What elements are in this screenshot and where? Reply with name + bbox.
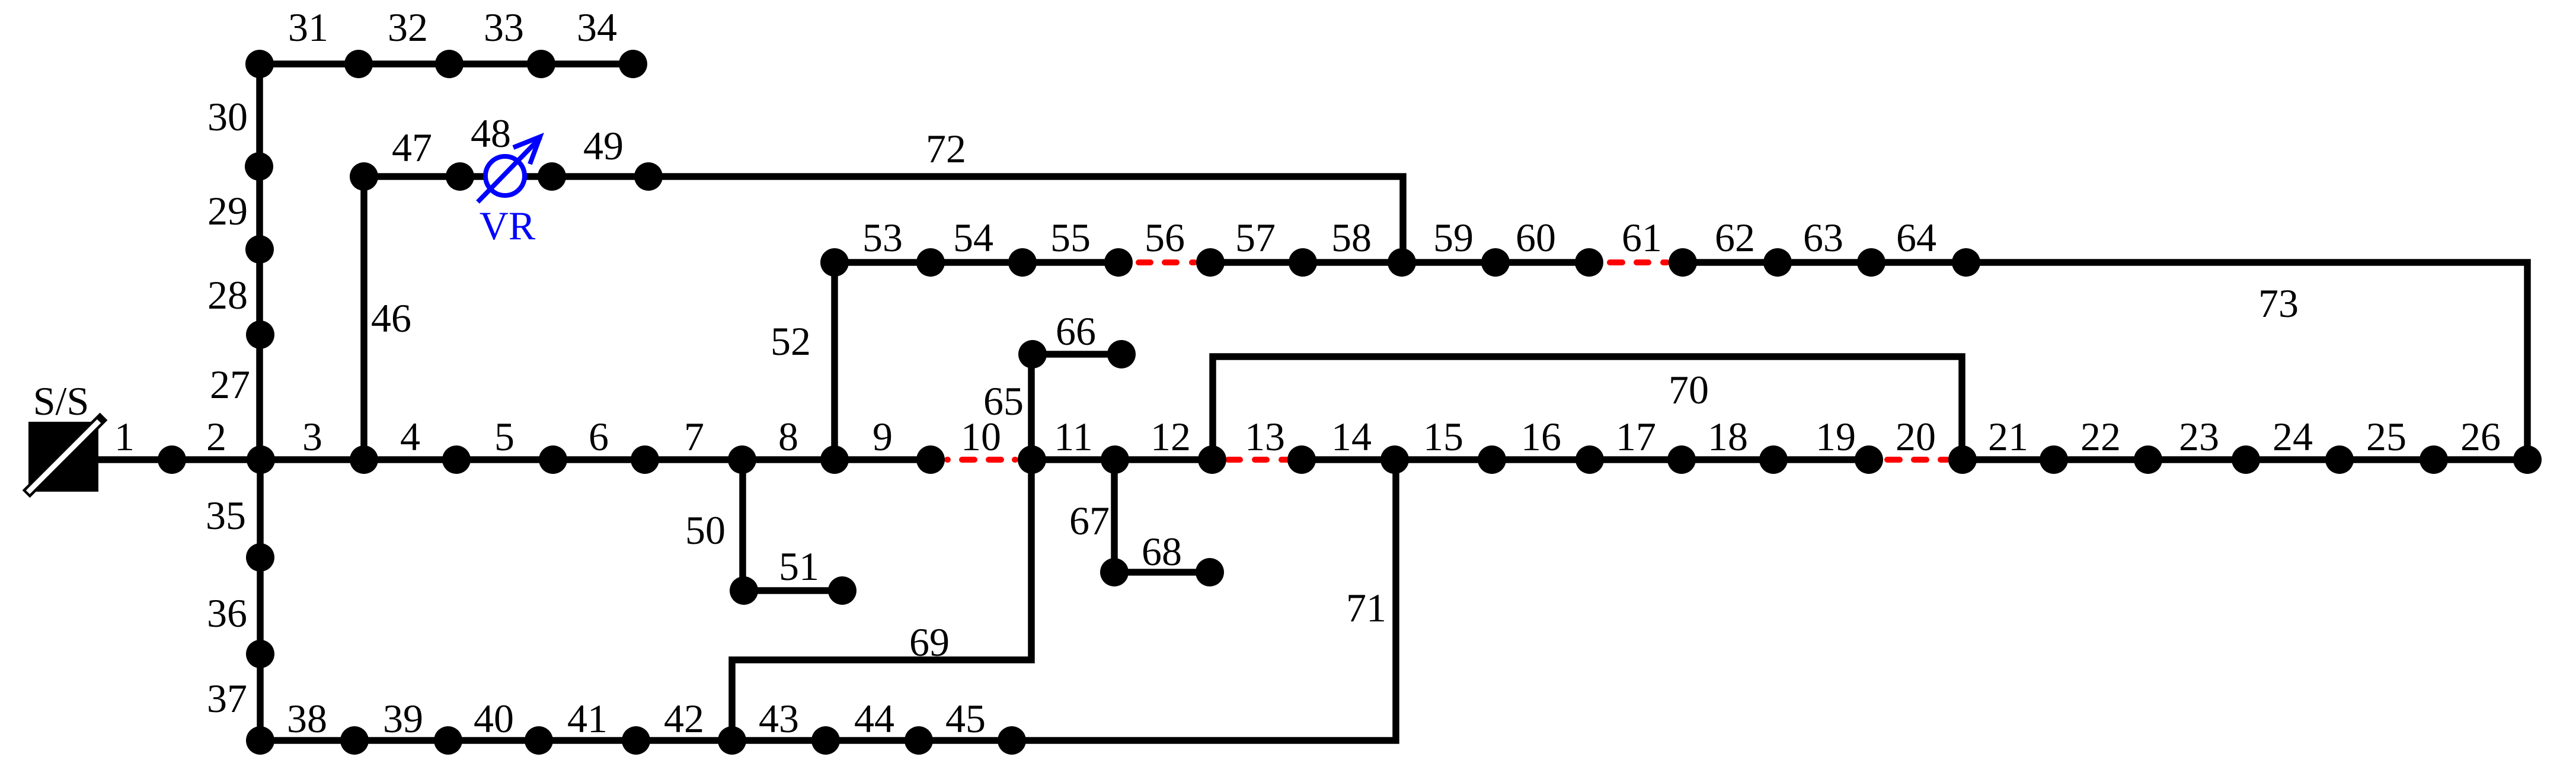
svg-text:58: 58 — [1331, 215, 1372, 260]
node bus 67/68 left — [1100, 558, 1129, 586]
node main bus 1 — [158, 445, 186, 474]
svg-text:56: 56 — [1145, 215, 1185, 260]
svg-text:65: 65 — [983, 379, 1024, 424]
node branch 53-64 bus 8 — [1481, 248, 1510, 277]
svg-text:8: 8 — [778, 414, 798, 459]
node corner 37/38 — [246, 726, 274, 755]
node main bus 3 — [350, 445, 378, 474]
node main bus 4 — [442, 445, 471, 474]
node bus 68 end — [1196, 558, 1224, 586]
wire main feeder segments 11-12 — [1025, 456, 1219, 463]
tie switch 10 (red dashed) — [947, 457, 1015, 463]
svg-text:40: 40 — [474, 696, 514, 741]
svg-text:63: 63 — [1803, 215, 1843, 260]
wire branch 50 vertical and 51 horizontal — [743, 460, 842, 591]
node main bus 26 — [2513, 445, 2542, 474]
node bottom branch bus 4 — [622, 726, 650, 755]
node on branch 35/36 — [246, 543, 274, 572]
svg-text:18: 18 — [1708, 414, 1748, 459]
node bottom branch bus 2 — [434, 726, 462, 755]
svg-text:39: 39 — [383, 696, 423, 741]
node main bus 5 — [539, 445, 567, 474]
node main bus 21 — [2040, 445, 2068, 474]
svg-text:44: 44 — [854, 696, 894, 741]
svg-text:35: 35 — [206, 493, 246, 538]
wire branch 65 vertical, 69 horizontal and drop to bottom branch — [732, 354, 1031, 740]
node main bus 16 — [1575, 445, 1604, 474]
svg-text:16: 16 — [1521, 414, 1561, 459]
svg-text:73: 73 — [2258, 281, 2299, 326]
svg-text:67: 67 — [1069, 498, 1110, 543]
node branch 53-64 bus 13 — [1952, 248, 1980, 277]
svg-text:43: 43 — [759, 696, 799, 741]
svg-text:24: 24 — [2273, 414, 2313, 459]
svg-text:54: 54 — [953, 215, 993, 260]
node main bus 8 — [820, 445, 849, 474]
svg-text:37: 37 — [207, 676, 247, 721]
wire branch 53-56 — [835, 259, 1126, 266]
svg-text:27: 27 — [210, 362, 250, 407]
svg-text:45: 45 — [945, 696, 986, 741]
node corner 30/31 — [245, 50, 274, 78]
svg-text:52: 52 — [771, 319, 811, 364]
svg-text:3: 3 — [302, 414, 322, 459]
svg-text:23: 23 — [2179, 414, 2219, 459]
node branch 53-64 bus 9 — [1575, 248, 1603, 277]
svg-text:20: 20 — [1896, 414, 1936, 459]
tie switch 13 (red dashed) — [1228, 457, 1287, 463]
node main bus 14 — [1380, 445, 1409, 474]
svg-text:5: 5 — [494, 414, 514, 459]
node branch 47-49 bus 3 — [538, 162, 566, 191]
node branch 31-34 bus 4 — [619, 50, 647, 78]
node bottom branch bus 5 — [718, 726, 746, 755]
node branch 53-64 bus 6 — [1289, 248, 1317, 277]
wire branches 27-30 vertical and 31-34 horizontal — [260, 64, 633, 460]
tie switch 56 (red dashed) — [1139, 259, 1194, 265]
node branch 53-64 bus 12 — [1857, 248, 1885, 277]
node main bus 15 — [1478, 445, 1506, 474]
node branch 53-64 bus 4 — [1104, 248, 1133, 277]
node main bus 6 — [631, 445, 659, 474]
svg-text:19: 19 — [1816, 414, 1856, 459]
svg-text:26: 26 — [2460, 414, 2501, 459]
svg-text:42: 42 — [664, 696, 704, 741]
wire main feeder segments 21-26 — [1955, 456, 2527, 463]
svg-text:53: 53 — [862, 215, 903, 260]
node branch 53-64 bus 1 — [820, 248, 849, 277]
node branch 47-49 bus 4 — [634, 162, 663, 191]
node bottom branch bus 3 — [525, 726, 553, 755]
svg-text:13: 13 — [1245, 414, 1285, 459]
svg-text:VR: VR — [480, 203, 536, 248]
node branch 53-64 bus 2 — [916, 248, 945, 277]
svg-text:61: 61 — [1622, 215, 1662, 260]
svg-text:12: 12 — [1150, 414, 1191, 459]
svg-text:38: 38 — [287, 696, 327, 741]
svg-text:2: 2 — [206, 414, 226, 459]
tie switch 61 (red dashed) — [1610, 259, 1667, 265]
node main bus 12 — [1198, 445, 1226, 474]
svg-text:51: 51 — [779, 544, 819, 589]
svg-text:46: 46 — [371, 296, 411, 341]
wire branch 35-37 vertical, 38-45 bottom horizontal, 71 vertical to bus 14 — [260, 460, 1396, 740]
node main bus 20 — [1948, 445, 1977, 474]
node bottom branch bus 7 — [905, 726, 933, 755]
svg-text:9: 9 — [872, 414, 893, 459]
node main bus 22 — [2134, 445, 2162, 474]
svg-text:62: 62 — [1715, 215, 1755, 260]
node branch 31-34 bus 3 — [527, 50, 555, 78]
node bus 50/51 left — [730, 576, 758, 605]
svg-text:71: 71 — [1346, 585, 1386, 630]
node branch 53-64 bus 5 — [1196, 248, 1225, 277]
svg-text:6: 6 — [589, 414, 609, 459]
svg-text:30: 30 — [207, 94, 248, 139]
node bottom branch bus 1 — [340, 726, 369, 755]
voltage regulator VR on branch 48 — [478, 137, 541, 202]
wire main feeder segments 14-19 — [1295, 456, 1876, 463]
node branch 53-64 bus 11 — [1763, 248, 1792, 277]
node bottom branch bus 6 — [811, 726, 840, 755]
svg-text:36: 36 — [207, 591, 247, 636]
wire branch 68 horizontal — [1114, 569, 1210, 576]
svg-text:11: 11 — [1054, 414, 1092, 459]
svg-text:4: 4 — [400, 414, 420, 459]
substation S/S — [26, 416, 104, 494]
node main bus 13 — [1287, 445, 1316, 474]
svg-text:41: 41 — [567, 696, 608, 741]
svg-text:15: 15 — [1423, 414, 1463, 459]
wire main feeder segment S/S to bus 9-10 — [98, 456, 938, 463]
svg-text:7: 7 — [684, 414, 704, 459]
node branch 47-49 bus 1 — [350, 162, 378, 191]
wire branch 47-49 horizontal, 72 and its drop to bus 58/59 — [364, 177, 1403, 262]
svg-text:33: 33 — [484, 5, 524, 50]
svg-text:55: 55 — [1050, 215, 1091, 260]
svg-text:59: 59 — [1433, 215, 1474, 260]
svg-text:32: 32 — [388, 5, 428, 50]
node on branch 27/28 — [246, 320, 274, 349]
node main bus 18 — [1759, 445, 1788, 474]
svg-text:14: 14 — [1331, 414, 1372, 459]
svg-text:64: 64 — [1896, 215, 1936, 260]
svg-text:S/S: S/S — [33, 379, 90, 424]
node main bus 11 — [1101, 445, 1129, 474]
svg-text:70: 70 — [1669, 367, 1709, 412]
svg-text:21: 21 — [1988, 414, 2028, 459]
svg-text:50: 50 — [685, 508, 726, 553]
wire branch 67 vertical — [1111, 460, 1118, 572]
node main bus 10 — [1018, 445, 1046, 474]
node main bus 19 — [1855, 445, 1883, 474]
node bus 65/66 left — [1018, 340, 1047, 368]
svg-text:68: 68 — [1142, 529, 1182, 574]
svg-text:29: 29 — [207, 188, 248, 233]
node branch 53-64 bus 10 — [1669, 248, 1697, 277]
svg-text:22: 22 — [2080, 414, 2121, 459]
svg-text:66: 66 — [1056, 309, 1096, 354]
node on branch 36/37 — [246, 640, 274, 668]
wire branch 70 loop from bus 12 to bus 20 — [1213, 357, 1962, 460]
wire branch 62-64, 73 horizontal and drop to bus 26 — [1676, 262, 2527, 460]
wire branch 66 horizontal — [1033, 351, 1121, 358]
node main bus 24 — [2325, 445, 2354, 474]
node main bus 2 — [247, 445, 275, 474]
node main bus 17 — [1667, 445, 1696, 474]
svg-text:17: 17 — [1616, 414, 1656, 459]
tie switch 20 (red dashed) — [1887, 457, 1947, 463]
svg-text:1: 1 — [114, 414, 135, 459]
node main bus 7 — [728, 445, 756, 474]
svg-text:57: 57 — [1235, 215, 1276, 260]
wire branch 46 vertical — [360, 177, 367, 460]
node branch 47-49 bus 2 — [446, 162, 474, 191]
node branch 53-64 bus 3 — [1008, 248, 1037, 277]
node on branch 28/29 — [245, 235, 274, 264]
node main bus 23 — [2232, 445, 2260, 474]
wire branch 57-60 — [1203, 259, 1596, 266]
svg-text:47: 47 — [392, 125, 432, 170]
node main bus 25 — [2420, 445, 2448, 474]
svg-text:72: 72 — [926, 126, 966, 171]
wire branch 52 vertical — [831, 262, 838, 460]
node on branch 29/30 — [245, 152, 273, 181]
node bus 66 end — [1107, 340, 1136, 368]
node branch 31-34 bus 2 — [435, 50, 464, 78]
node branch 53-64 bus 7 — [1388, 248, 1416, 277]
node bus 51 end — [828, 576, 856, 605]
node main bus 9 — [916, 445, 945, 474]
svg-text:48: 48 — [471, 111, 511, 156]
svg-text:34: 34 — [577, 5, 617, 50]
svg-text:60: 60 — [1516, 215, 1556, 260]
node branch 31-34 bus 1 — [344, 50, 373, 78]
svg-text:25: 25 — [2366, 414, 2406, 459]
svg-text:28: 28 — [207, 272, 248, 318]
node bottom branch bus 8 — [998, 726, 1026, 755]
svg-text:31: 31 — [288, 5, 328, 50]
svg-text:49: 49 — [583, 123, 624, 168]
svg-text:69: 69 — [909, 620, 950, 665]
